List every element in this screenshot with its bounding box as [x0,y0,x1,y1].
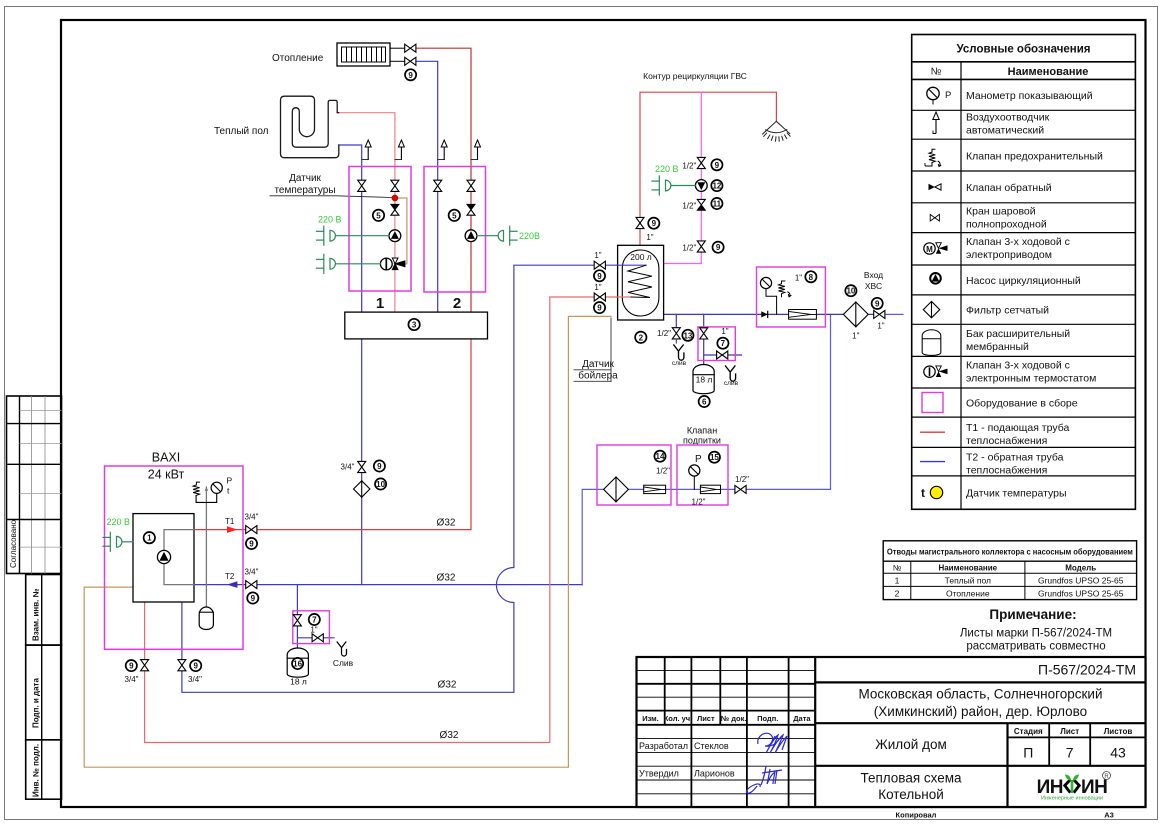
expansion tank 18l [693,365,714,394]
floor heating coil Теплый пол [281,96,339,158]
svg-text:10: 10 [376,480,385,489]
air vent box2 red [471,140,481,160]
equipment table Отводы магистрального коллектора [883,541,1136,600]
svg-text:3/4": 3/4" [245,568,259,577]
svg-text:Подп. и дата: Подп. и дата [32,678,41,728]
3-way valve with thermostat box1 [380,258,405,270]
boiler sensor leader [610,318,612,381]
title block frame [637,657,1146,807]
svg-text:Манометр показывающий: Манометр показывающий [966,90,1093,102]
power connector recirc pump [652,176,695,195]
valve T1 3/4 [246,526,257,534]
badge 9 baxi red riser [126,660,137,671]
badge 9 collector riser [374,460,385,471]
valve 18l branch [700,328,708,339]
wire: 18l tank branch [704,314,742,364]
svg-text:24 кВт: 24 кВт [148,468,185,482]
svg-text:13: 13 [683,331,692,340]
svg-text:Насос циркуляционный: Насос циркуляционный [966,275,1081,287]
svg-text:1/2": 1/2" [656,467,670,476]
reducer valve box 14 [644,485,666,493]
collector box [345,312,488,339]
stamp Взам. инв. № cell [26,575,62,646]
svg-text:8: 8 [809,273,814,282]
valve radiator return [405,57,416,65]
filter make-up [604,477,629,502]
svg-text:Лист: Лист [1060,727,1079,736]
filter collector riser [354,481,370,497]
legend symbol: бак расширительный [922,330,941,356]
svg-text:12: 12 [712,182,721,191]
recirc pump [695,180,707,192]
svg-text:Примечание:: Примечание: [989,607,1076,622]
valve radiator supply [405,44,416,52]
svg-text:Кран шаровой: Кран шаровой [966,206,1036,218]
reducer valve box 15 [700,485,720,493]
title block right part [815,662,1145,808]
svg-text:Стадия: Стадия [1014,727,1043,736]
wire: boiler return riser blue with hop [182,265,618,692]
svg-text:Тепловая схема: Тепловая схема [860,771,962,786]
svg-text:Согласовано: Согласовано [9,519,18,568]
svg-text:9: 9 [193,662,198,671]
legend symbol: манометр [927,87,952,104]
svg-text:Листов: Листов [1104,727,1133,736]
badge 9 radiator [405,69,416,80]
svg-text:Т1 - подающая труба: Т1 - подающая труба [966,422,1069,434]
badge 7 [717,338,728,349]
svg-text:Дата: Дата [793,714,811,723]
check valve box2 [467,204,475,215]
valve 1" tank blue inlet [594,261,605,269]
T1 arrow [227,526,238,533]
svg-text:Стеклов: Стеклов [694,741,729,751]
svg-text:16: 16 [293,660,302,669]
boiler safety group: stem [205,487,207,608]
equipment box 1 (magenta) [349,167,411,292]
svg-text:теплоснабжения: теплоснабжения [966,465,1047,477]
power connector 220V box1 3way [317,254,381,273]
svg-text:Утвердил: Утвердил [639,769,679,779]
svg-text:9: 9 [251,594,256,603]
badge 15 [709,452,720,463]
valve box2 blue riser [434,180,442,191]
svg-text:1/2": 1/2" [682,201,696,210]
drain symbol tank [674,345,684,360]
badge 5 box2 [449,210,460,221]
svg-text:Р: Р [695,454,702,465]
svg-text:электронным термостатом: электронным термостатом [966,373,1096,385]
svg-text:11: 11 [713,200,722,209]
badge 9 T1 [246,538,257,549]
svg-text:1": 1" [310,626,317,635]
legend symbol: клапан 3-х ходовой с электроприводом [924,243,948,255]
badge 14 [654,451,665,462]
stamp Подп. и дата cell [26,645,62,740]
tank drain valve 13 [672,328,680,339]
svg-text:Отопление: Отопление [946,588,990,598]
svg-text:Изм.: Изм. [642,714,659,723]
svg-text:9: 9 [408,71,413,80]
shower symbol [763,121,791,141]
signature scribble [746,733,787,793]
safety valve in box 8 [779,281,792,297]
svg-text:Инв. № подл.: Инв. № подл. [32,744,41,797]
DHW tank 200l [618,245,664,320]
svg-text:Копировал: Копировал [896,811,937,820]
svg-text:3/4": 3/4" [125,675,139,684]
svg-text:220 В: 220 В [655,164,679,174]
badge 1 boiler [144,532,155,543]
valve box2 red riser [467,180,475,191]
badge 9 T2 [247,592,258,603]
legend table Условные обозначения [912,35,1136,510]
svg-text:1/2": 1/2" [735,475,749,484]
svg-text:R: R [1104,774,1109,780]
svg-text:Клапан 3-х ходовой с: Клапан 3-х ходовой с [966,360,1070,372]
svg-text:Подп.: Подп. [757,714,778,723]
svg-text:9: 9 [129,662,134,671]
svg-text:Р: Р [945,90,951,101]
svg-text:10: 10 [846,287,855,296]
wire: boiler DHW-loop red riser [145,297,618,743]
reducer valve in box 8 [789,310,817,320]
radiator Отопление [337,43,405,66]
svg-text:220 В: 220 В [318,215,342,225]
ball valve XBC inlet [874,310,885,318]
wire: T2 return to boiler blue [194,584,582,586]
svg-text:1/2": 1/2" [692,498,706,507]
safety group box 8 (magenta) [757,267,826,327]
wire: collector return riser blue [361,339,363,585]
valve 3/4 collector riser [358,461,366,472]
wire: radiator supply red [416,48,471,312]
valve box1 blue riser [358,180,366,191]
svg-text:5: 5 [376,211,381,220]
svg-text:15: 15 [710,453,719,462]
svg-text:рассматривать совместно: рассматривать совместно [966,641,1105,653]
wire: tank drain branch [675,314,677,328]
svg-text:Отопление: Отопление [272,53,324,64]
svg-text:Датчик: Датчик [289,173,321,184]
svg-text:Ø32: Ø32 [440,730,459,741]
svg-text:Клапан обратный: Клапан обратный [966,182,1052,194]
svg-text:1: 1 [376,295,384,312]
svg-text:Т1: Т1 [225,517,235,526]
svg-text:1": 1" [795,274,802,283]
svg-text:BAXI: BAXI [152,451,181,465]
wire: DHW hot supply red [640,92,776,245]
svg-text:9: 9 [377,462,382,471]
stamp Согласовано table [7,396,62,574]
power connector 220V boiler [103,532,133,551]
badge 5 box1 [373,210,384,221]
boiler pressure gauge [211,482,222,493]
pump boiler internal [157,550,170,563]
badge 9 DHW riser [648,218,659,229]
svg-text:Ларионов: Ларионов [694,769,735,779]
svg-text:Наименование: Наименование [1008,66,1089,78]
svg-text:7: 7 [312,616,317,625]
gauge in box 8 [760,277,776,314]
svg-text:Вход: Вход [864,270,883,280]
power connector 220V box1 pump [317,226,390,245]
svg-text:6: 6 [702,398,707,407]
recirc check valve [697,199,705,210]
valve baxi expansion branch [293,615,301,626]
valve box1 red riser [391,180,399,191]
svg-text:Фильтр сетчатый: Фильтр сетчатый [966,305,1049,317]
svg-text:Клапан 3-х ходовой с: Клапан 3-х ходовой с [966,236,1070,248]
svg-text:18 л: 18 л [696,375,713,385]
svg-text:Слив: Слив [333,658,354,668]
svg-text:№: № [893,564,902,573]
svg-text:3/4": 3/4" [245,513,259,522]
badge 10 collector riser [375,478,386,489]
svg-text:Т2 - обратная труба: Т2 - обратная труба [966,452,1064,464]
svg-text:Р: Р [227,476,233,486]
svg-text:полнопроходной: полнопроходной [966,219,1047,231]
recirc valve 1/2 top [697,157,705,168]
boiler expansion vessel [199,607,213,629]
svg-text:200 л: 200 л [630,252,652,262]
valve baxi blue riser [178,660,186,671]
svg-text:Бак расширительный: Бак расширительный [966,328,1070,340]
wire: cold water main blue [664,313,884,315]
badge 6 [699,396,710,407]
badge 16 [292,658,303,669]
INZHIN logo [1037,772,1111,802]
wire: floor heating supply salmon [339,113,395,312]
svg-text:9: 9 [597,272,602,281]
svg-text:1: 1 [147,534,152,543]
svg-text:7: 7 [1066,745,1074,761]
svg-text:электроприводом: электроприводом [966,249,1052,261]
expansion group box near tank (magenta) [698,327,735,361]
drain symbol 18l [725,366,735,381]
svg-text:Клапан: Клапан [687,426,717,436]
svg-text:А3: А3 [1104,811,1114,820]
legend symbol: Т2 [920,461,945,463]
svg-text:43: 43 [1110,745,1126,761]
svg-text:Листы марки П-567/2024-ТМ: Листы марки П-567/2024-ТМ [960,628,1112,640]
gauge box 15 [689,465,700,490]
label Датчик бойлера [574,359,618,382]
svg-text:1: 1 [895,575,900,585]
svg-text:2: 2 [639,333,644,342]
legend symbol: воздухоотводчик [933,112,939,134]
label Датчик температуры [270,173,392,198]
air vent box1 red [395,140,405,160]
valve 1" tank red inlet [594,293,605,301]
svg-text:температуры: температуры [274,185,335,196]
svg-text:Жилой дом: Жилой дом [875,737,947,752]
svg-text:Датчик: Датчик [582,359,614,370]
svg-text:(Химкинский) район, дер. Юрлов: (Химкинский) район, дер. Юрлово [874,704,1087,719]
wire: T1 from boiler to collector red [194,339,471,530]
wire: boiler tank sensor cable tan [84,316,611,767]
svg-text:1/2": 1/2" [657,329,671,338]
wire: floor heating return blue [339,145,362,312]
svg-text:П-567/2024-ТМ: П-567/2024-ТМ [1038,662,1136,678]
svg-text:5: 5 [452,211,457,220]
svg-text:1": 1" [852,332,859,341]
ball valve 18l drain [717,351,728,359]
legend symbol: клапан обратный [929,184,942,190]
svg-text:1/2": 1/2" [682,244,696,253]
svg-text:Разработал: Разработал [639,741,688,751]
legend symbol: насос [930,273,941,284]
svg-text:П: П [1023,745,1033,761]
svg-text:9: 9 [597,304,602,313]
svg-text:2: 2 [895,588,900,598]
svg-text:Наименование: Наименование [938,564,997,573]
wire: radiator return blue [416,61,438,312]
svg-text:Ø32: Ø32 [437,573,456,584]
valve baxi red riser [141,660,149,671]
svg-text:бойлера: бойлера [578,370,618,382]
check valve box1 [391,204,399,215]
svg-text:Московская область, Солнечного: Московская область, Солнечногорский [859,687,1103,702]
svg-text:подпитки: подпитки [683,436,721,446]
filter XBC [843,302,868,327]
T2 arrow [227,581,238,588]
expansion tank 18l baxi [287,648,308,677]
legend symbol: клапан предохранительный [925,149,941,166]
svg-text:3/4": 3/4" [341,463,355,472]
legend symbol: Т1 [920,431,945,433]
svg-text:Оборудование в сборе: Оборудование в сборе [966,398,1078,410]
svg-text:2: 2 [453,295,461,312]
svg-text:7: 7 [721,339,726,348]
wire: DHW recirculation pink [664,92,702,263]
left signature columns [664,657,666,725]
svg-text:ХВС: ХВС [865,281,882,291]
svg-text:Кол. уч.: Кол. уч. [664,714,693,723]
svg-text:теплоснабжения: теплоснабжения [966,435,1047,447]
badge 3 collector [408,319,419,330]
svg-text:Теплый пол: Теплый пол [945,575,991,585]
wire: make-up water line bright blue [582,314,830,584]
badge 9 baxi blue riser [190,660,201,671]
legend symbol: кран шаровой [930,214,939,221]
svg-text:№: № [931,67,942,78]
legend symbol: фильтр [923,301,939,317]
svg-text:1/2": 1/2" [682,161,696,170]
svg-text:9: 9 [716,243,721,252]
badge 8 [805,271,816,282]
svg-text:Датчик температуры: Датчик температуры [966,488,1067,500]
svg-text:18 л: 18 л [290,677,307,687]
svg-text:1": 1" [594,283,601,292]
temperature sensor dot box1 [392,195,398,201]
legend symbol: клапан 3-х ходовой с электронным термостатом [924,366,948,378]
svg-text:Лист: Лист [697,714,715,723]
svg-text:9: 9 [249,540,254,549]
svg-text:1": 1" [877,322,884,331]
svg-text:Grundfos UPSO 25-65: Grundfos UPSO 25-65 [1038,575,1124,585]
svg-text:9: 9 [652,219,657,228]
svg-text:слив: слив [724,380,739,387]
legend symbol: оборудование в сборе [922,393,943,413]
svg-text:слив: слив [672,360,687,367]
svg-text:220В: 220В [519,231,540,241]
badge 2 tank [635,332,646,343]
valve T2 3/4 [246,581,257,589]
pump box2 [465,230,477,242]
svg-text:Котельной: Котельной [878,787,944,802]
boiler unit U1 [133,514,194,602]
boiler safety group: bracket [196,493,217,502]
svg-text:Инженерные инновации: Инженерные инновации [1041,796,1103,802]
svg-text:№ док.: № док. [721,714,747,723]
badge 10 XBC [845,285,856,296]
make-up filter box 14 (magenta) [597,445,671,505]
svg-text:Ø32: Ø32 [437,518,456,529]
svg-text:3/4": 3/4" [188,675,202,684]
svg-text:Клапан предохранительный: Клапан предохранительный [966,151,1103,163]
svg-text:Контур рециркуляции ГВС: Контур рециркуляции ГВС [643,71,747,81]
power connector 220V box2 pump [477,226,517,245]
svg-text:автоматический: автоматический [966,125,1044,137]
ball valve make-up [735,485,746,493]
svg-text:Теплый пол: Теплый пол [214,126,269,137]
svg-text:Ø32: Ø32 [438,680,457,691]
pump box1 [389,230,401,242]
svg-text:9: 9 [715,161,720,170]
label Вход ХВС [864,270,883,291]
svg-text:14: 14 [656,452,665,461]
boiler safety valve spring [193,482,200,495]
svg-text:М: М [926,245,933,254]
note Примечание [960,607,1112,653]
svg-text:220 В: 220 В [107,517,131,527]
air vent box1 blue [362,140,372,160]
valve 1" DHW riser [636,217,644,228]
svg-text:Модель: Модель [1065,564,1096,573]
expansion group box (magenta) near baxi [293,611,330,644]
svg-text:1": 1" [594,251,601,260]
air vent box2 blue [438,140,448,160]
svg-text:мембранный: мембранный [966,341,1029,353]
svg-text:1": 1" [646,233,653,242]
svg-text:Grundfos UPSO 25-65: Grundfos UPSO 25-65 [1038,588,1124,598]
wire: baxi 18l expansion branch [297,585,334,648]
recirc valve 1/2 bottom [697,241,705,252]
svg-text:Отводы магистрального коллекто: Отводы магистрального коллектора с насос… [887,547,1133,557]
equipment box 2 (magenta) [424,167,486,293]
svg-text:3: 3 [412,321,417,330]
svg-text:1": 1" [721,327,728,336]
legend symbol: датчик температуры [921,486,943,500]
svg-text:9: 9 [875,299,880,308]
ball valve drain baxi expansion [312,634,323,642]
svg-text:Воздухоотводчик: Воздухоотводчик [966,112,1050,124]
wire: sensor cable to 3-way valve tan [395,198,407,264]
svg-text:Взам. инв. №: Взам. инв. № [32,588,41,641]
svg-text:Т2: Т2 [225,572,235,581]
make-up valve box 15 (magenta) [677,445,728,505]
drain symbol baxi [337,642,346,656]
wire: cold water inlet bright [884,313,903,315]
badge 7 baxi expansion [309,614,320,625]
check valve in box 8 [761,311,767,317]
stamp Инв. № подл. cell [26,740,62,799]
BAXI boiler assembly box (magenta) [105,466,244,649]
svg-text:Условные обозначения: Условные обозначения [956,44,1090,56]
svg-text:t: t [921,486,925,500]
label Клапан подпитки [683,426,721,446]
